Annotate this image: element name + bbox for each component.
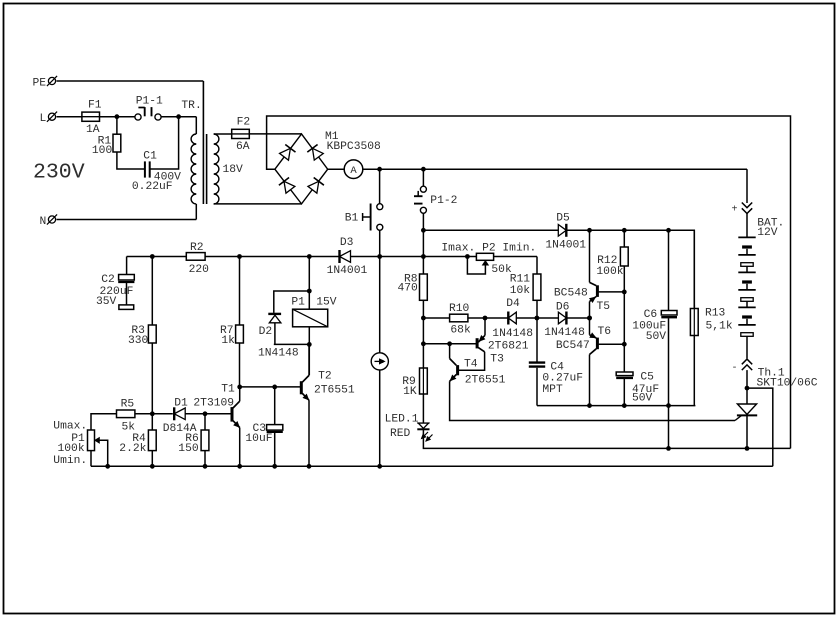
svg-text:B1: B1 <box>345 213 359 225</box>
svg-text:D2: D2 <box>259 326 273 338</box>
svg-text:BC548: BC548 <box>554 287 588 299</box>
svg-text:L: L <box>40 113 47 125</box>
svg-text:150: 150 <box>178 443 199 455</box>
svg-text:A: A <box>350 165 357 177</box>
svg-text:P1: P1 <box>291 297 305 309</box>
svg-text:P1-1: P1-1 <box>136 95 163 107</box>
svg-text:1A: 1A <box>86 124 100 136</box>
svg-text:1N4148: 1N4148 <box>544 327 585 339</box>
svg-text:220: 220 <box>189 264 210 276</box>
svg-text:T5: T5 <box>597 301 611 313</box>
svg-text:C2: C2 <box>101 274 115 286</box>
svg-text:D3: D3 <box>340 237 354 249</box>
svg-text:10uF: 10uF <box>245 433 272 445</box>
svg-text:1N4001: 1N4001 <box>327 265 368 277</box>
svg-text:C1: C1 <box>143 151 157 163</box>
svg-text:5,1k: 5,1k <box>706 321 733 333</box>
svg-text:R10: R10 <box>449 303 470 315</box>
svg-text:R13: R13 <box>705 308 726 320</box>
svg-text:Umax.: Umax. <box>53 420 87 432</box>
svg-text:T1: T1 <box>221 384 235 396</box>
svg-text:N: N <box>40 216 47 228</box>
svg-text:1N4001: 1N4001 <box>545 239 586 251</box>
svg-text:68k: 68k <box>450 324 471 336</box>
svg-text:10k: 10k <box>510 285 531 297</box>
svg-text:0.27uF: 0.27uF <box>542 372 583 384</box>
svg-text:2T6551: 2T6551 <box>465 375 506 387</box>
svg-text:+: + <box>732 205 738 216</box>
svg-text:5k: 5k <box>122 422 136 434</box>
svg-text:P1-2: P1-2 <box>430 195 457 207</box>
svg-text:D4: D4 <box>506 298 520 310</box>
svg-text:R2: R2 <box>190 242 204 254</box>
svg-text:F1: F1 <box>88 99 102 111</box>
svg-text:1N4148: 1N4148 <box>258 348 299 360</box>
svg-text:F2: F2 <box>237 116 251 128</box>
svg-text:2T6821: 2T6821 <box>488 340 529 352</box>
svg-text:KBPC3508: KBPC3508 <box>327 141 381 153</box>
svg-text:0.22uF: 0.22uF <box>132 181 173 193</box>
svg-text:T2: T2 <box>318 370 332 382</box>
svg-text:RED: RED <box>390 428 411 440</box>
svg-text:MPT: MPT <box>542 384 563 396</box>
svg-text:TR.: TR. <box>181 100 201 112</box>
svg-text:230V: 230V <box>33 161 85 185</box>
svg-text:BC547: BC547 <box>556 340 590 352</box>
svg-text:50V: 50V <box>632 393 653 405</box>
svg-text:1N4148: 1N4148 <box>492 328 533 340</box>
svg-text:100k: 100k <box>58 443 85 455</box>
svg-text:T6: T6 <box>598 326 612 338</box>
svg-text:18V: 18V <box>223 164 244 176</box>
svg-text:100k: 100k <box>596 266 623 278</box>
svg-text:2T6551: 2T6551 <box>314 385 355 397</box>
svg-text:R11: R11 <box>510 274 531 286</box>
svg-text:D1: D1 <box>174 397 188 409</box>
svg-text:T4: T4 <box>464 359 478 371</box>
svg-text:330: 330 <box>128 335 149 347</box>
svg-text:12V: 12V <box>757 227 778 239</box>
svg-text:50V: 50V <box>646 331 667 343</box>
svg-text:D6: D6 <box>556 301 570 313</box>
svg-text:470: 470 <box>398 283 419 295</box>
svg-text:35V: 35V <box>96 296 117 308</box>
svg-text:Umin.: Umin. <box>53 455 87 467</box>
svg-text:100: 100 <box>92 145 113 157</box>
svg-text:R5: R5 <box>121 398 135 410</box>
svg-text:2.2k: 2.2k <box>119 443 146 455</box>
svg-text:C6: C6 <box>644 309 658 321</box>
svg-text:1K: 1K <box>403 386 417 398</box>
svg-text:Imax. P2 Imin.: Imax. P2 Imin. <box>441 242 536 254</box>
svg-text:D5: D5 <box>556 212 570 224</box>
svg-text:C5: C5 <box>640 372 654 384</box>
svg-text:PE: PE <box>33 78 47 90</box>
svg-text:LED.1: LED.1 <box>385 414 419 426</box>
svg-text:6A: 6A <box>236 141 250 153</box>
svg-text:T3: T3 <box>490 353 504 365</box>
svg-text:-: - <box>732 363 738 374</box>
svg-text:15V: 15V <box>316 297 337 309</box>
svg-text:1k: 1k <box>221 335 235 347</box>
svg-text:2T3109: 2T3109 <box>193 397 234 409</box>
